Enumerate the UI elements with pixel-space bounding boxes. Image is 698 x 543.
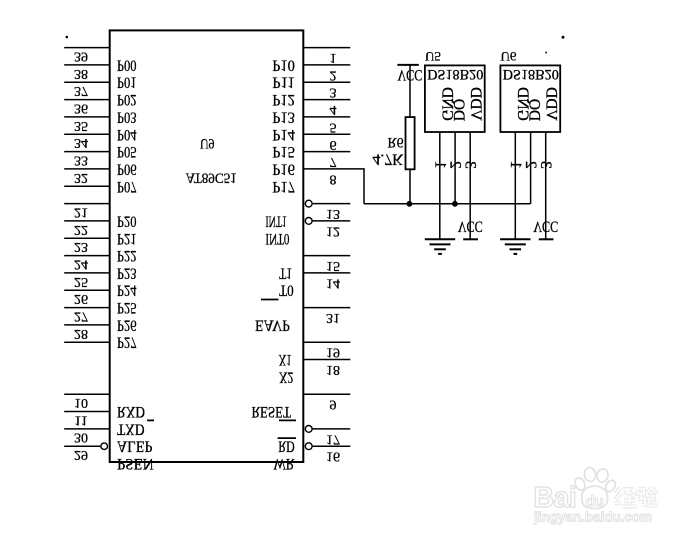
wire right pin stub row18	[303, 341, 350, 343]
svg-text:14: 14	[326, 275, 340, 290]
wire left pin stub row8	[64, 168, 110, 170]
wire left pin stub row10	[64, 203, 110, 205]
wire left pin stub row1	[64, 47, 110, 49]
wire left pin stub row13	[64, 255, 110, 257]
svg-text:32: 32	[74, 170, 88, 185]
svg-text:VDD: VDD	[542, 87, 559, 121]
svg-text:DS18B20: DS18B20	[427, 66, 483, 82]
svg-text:P13: P13	[272, 108, 295, 125]
active-low bubble row10	[305, 200, 312, 207]
svg-text:24: 24	[74, 256, 88, 271]
speck dot 2	[562, 36, 565, 39]
svg-text:8: 8	[330, 171, 337, 186]
svg-text:X1: X1	[279, 351, 292, 368]
svg-text:P20: P20	[117, 212, 137, 229]
ground symbol 2	[500, 238, 530, 240]
svg-text:31: 31	[326, 310, 340, 325]
svg-text:P04: P04	[117, 126, 137, 143]
svg-text:INT1: INT1	[265, 212, 287, 229]
svg-text:34: 34	[74, 135, 88, 150]
wire left pin stub row16	[64, 307, 110, 309]
wire right pin stub row7	[303, 151, 350, 153]
svg-text:26: 26	[74, 291, 88, 306]
svg-text:9: 9	[330, 397, 337, 412]
wire right pin stub row3	[303, 81, 350, 83]
svg-text:3: 3	[330, 85, 337, 100]
svg-text:25: 25	[74, 274, 88, 289]
svg-text:P05: P05	[117, 143, 137, 160]
svg-text:P12: P12	[272, 91, 295, 108]
svg-text:2: 2	[446, 161, 463, 169]
svg-text:1: 1	[330, 50, 337, 65]
svg-text:33: 33	[74, 153, 88, 168]
wire left pin stub row9	[64, 185, 110, 187]
svg-text:P25: P25	[117, 299, 137, 316]
svg-text:3: 3	[462, 161, 479, 169]
svg-text:P24: P24	[117, 282, 137, 299]
svg-text:37: 37	[74, 83, 88, 98]
hanzi yan	[638, 488, 658, 506]
svg-text:RESET: RESET	[251, 403, 291, 420]
sensor U6 DS18B20 body	[500, 65, 560, 132]
svg-text:P11: P11	[272, 74, 295, 91]
svg-text:7: 7	[330, 154, 337, 169]
power VCC symbol sensor U6 VDD	[539, 238, 554, 240]
svg-text:P07: P07	[117, 178, 137, 195]
wire VCC to R6	[409, 65, 411, 117]
svg-text:13: 13	[326, 206, 340, 221]
wire U5 VDD leg	[469, 132, 471, 239]
active-low bubble row24	[305, 443, 312, 450]
hanzi jing	[615, 488, 658, 508]
paw toe mid-right	[596, 468, 609, 484]
paw toe left	[573, 476, 587, 492]
svg-text:U6: U6	[501, 49, 517, 64]
wire R6 to DQ bus	[409, 169, 411, 204]
power VCC symbol R6 top	[397, 64, 418, 66]
wire right pin stub row6	[303, 133, 350, 135]
wire left pin stub row5	[64, 116, 110, 118]
svg-text:2: 2	[330, 67, 337, 82]
svg-text:19: 19	[326, 345, 340, 360]
wire left pin stub row11	[64, 220, 110, 222]
wire right pin stub row21	[303, 393, 350, 395]
svg-text:R6: R6	[388, 134, 404, 150]
wire right pin stub row14	[303, 272, 350, 274]
resistor R6 body	[406, 117, 415, 169]
svg-text:28: 28	[74, 326, 88, 341]
wire left pin stub row21	[64, 393, 110, 395]
speck dot 1	[66, 36, 69, 39]
wire pin 8 P17 to DQ bus	[303, 169, 364, 204]
wire left pin stub row18	[64, 341, 110, 343]
ground symbol 1	[425, 238, 455, 240]
svg-text:P06: P06	[117, 160, 137, 177]
paw toe mid-left	[583, 467, 596, 482]
svg-text:RD: RD	[278, 438, 295, 455]
svg-text:DQ: DQ	[450, 99, 467, 121]
svg-text:4.7K: 4.7K	[373, 151, 405, 168]
svg-text:EAVP: EAVP	[255, 316, 290, 333]
svg-text:29: 29	[74, 447, 88, 462]
sensor U5 DS18B20 body	[425, 65, 485, 132]
svg-text:T1: T1	[279, 264, 292, 281]
wire left pin stub row17	[64, 324, 110, 326]
svg-text:P10: P10	[272, 56, 295, 73]
svg-text:1: 1	[507, 161, 524, 169]
pin 29 active-low bubble	[101, 443, 108, 450]
svg-text:DQ: DQ	[526, 99, 543, 121]
speck dot 3	[545, 52, 547, 54]
svg-text:INT0: INT0	[265, 230, 289, 247]
svg-text:16: 16	[326, 449, 340, 464]
svg-text:DS18B20: DS18B20	[503, 66, 559, 82]
RXD overline mark	[147, 419, 154, 421]
svg-text:4: 4	[330, 102, 337, 117]
svg-text:6: 6	[330, 137, 337, 152]
wire left pin stub row15	[64, 289, 110, 291]
junction U5 DQ	[453, 201, 458, 206]
svg-text:X2: X2	[279, 368, 294, 385]
wire left pin stub row4	[64, 99, 110, 101]
svg-text:12: 12	[326, 223, 340, 238]
wire PSEN pin 29 stub	[64, 445, 101, 447]
wire left pin stub row2	[64, 64, 110, 66]
svg-text:WR: WR	[274, 455, 296, 472]
wire DQ bus	[364, 203, 530, 205]
T0 overline mark	[261, 299, 279, 301]
svg-text:du: du	[586, 493, 604, 510]
svg-text:P00: P00	[117, 56, 137, 73]
wire left pin stub row12	[64, 237, 110, 239]
svg-text:17: 17	[326, 431, 340, 446]
RD overline	[278, 437, 296, 439]
svg-text:VDD: VDD	[467, 87, 484, 121]
wire right pin stub row1	[303, 47, 350, 49]
junction R6-DQ	[407, 201, 412, 206]
wire right pin stub row13	[303, 255, 350, 257]
wire right pin stub row4	[303, 99, 350, 101]
svg-text:P23: P23	[117, 264, 137, 281]
wire U6 DQ leg	[530, 132, 532, 204]
wire U6 VDD leg	[545, 132, 547, 239]
paw toe right	[604, 479, 618, 494]
svg-text:38: 38	[74, 66, 88, 81]
wire right pin stub row5	[303, 116, 350, 118]
svg-text:11: 11	[74, 413, 87, 428]
svg-text:P01: P01	[117, 74, 137, 91]
watermark Baidu Jingyan logo	[533, 467, 657, 525]
svg-text:P15: P15	[272, 143, 295, 160]
wire U5 GND leg	[439, 132, 441, 239]
svg-text:39: 39	[74, 49, 88, 64]
wire left pin stub row7	[64, 151, 110, 153]
svg-text:3: 3	[537, 161, 554, 169]
svg-text:22: 22	[74, 222, 88, 237]
svg-text:VCC: VCC	[458, 218, 483, 235]
active-low bubble row11	[305, 218, 312, 225]
power VCC symbol sensor U5 VDD	[463, 238, 478, 240]
svg-text:P22: P22	[117, 247, 137, 264]
wire right pin stub row16	[303, 307, 350, 309]
svg-text:18: 18	[326, 362, 340, 377]
svg-text:15: 15	[326, 258, 340, 273]
svg-text:P02: P02	[117, 91, 137, 108]
op-amp U9 outline (AT89C51 chip body)	[110, 30, 304, 462]
svg-text:30: 30	[74, 430, 88, 445]
wire left pin stub row22	[64, 411, 110, 413]
svg-text:10: 10	[74, 395, 88, 410]
svg-text:P26: P26	[117, 316, 137, 333]
svg-text:21: 21	[74, 204, 88, 219]
svg-text:jingyan.baidu.com: jingyan.baidu.com	[533, 509, 652, 525]
svg-text:27: 27	[74, 309, 88, 324]
wire left pin stub row23	[64, 428, 110, 430]
RESET overline mark	[279, 419, 296, 421]
svg-text:TXD: TXD	[117, 420, 145, 437]
active-low bubble row23	[305, 426, 312, 433]
svg-text:P17: P17	[272, 178, 295, 195]
wire U5 DQ leg	[454, 132, 456, 204]
wire right pin stub row2	[303, 64, 350, 66]
wire left pin stub row6	[64, 133, 110, 135]
svg-text:P03: P03	[117, 108, 137, 125]
svg-text:ALEP: ALEP	[117, 438, 153, 455]
svg-text:T0: T0	[279, 282, 294, 299]
svg-text:P21: P21	[117, 230, 137, 247]
svg-text:RXD: RXD	[117, 403, 145, 420]
svg-text:U5: U5	[425, 49, 441, 64]
svg-text:P16: P16	[272, 160, 295, 177]
svg-text:23: 23	[74, 239, 88, 254]
wire left pin stub row3	[64, 81, 110, 83]
svg-text:U9: U9	[200, 135, 215, 151]
svg-text:35: 35	[74, 118, 88, 133]
svg-text:P27: P27	[117, 334, 137, 351]
svg-text:5: 5	[330, 119, 337, 134]
svg-text:PSEN: PSEN	[117, 455, 154, 472]
wire right pin stub row19	[303, 359, 350, 361]
wire U6 GND leg	[514, 132, 516, 239]
svg-text:36: 36	[74, 101, 88, 116]
paw main pad	[582, 486, 608, 509]
svg-text:2: 2	[522, 161, 539, 169]
svg-text:VCC: VCC	[533, 218, 558, 235]
svg-text:P14: P14	[272, 126, 295, 143]
wire left pin stub row14	[64, 272, 110, 274]
svg-text:1: 1	[432, 161, 449, 169]
svg-text:AT89C51: AT89C51	[186, 169, 237, 185]
